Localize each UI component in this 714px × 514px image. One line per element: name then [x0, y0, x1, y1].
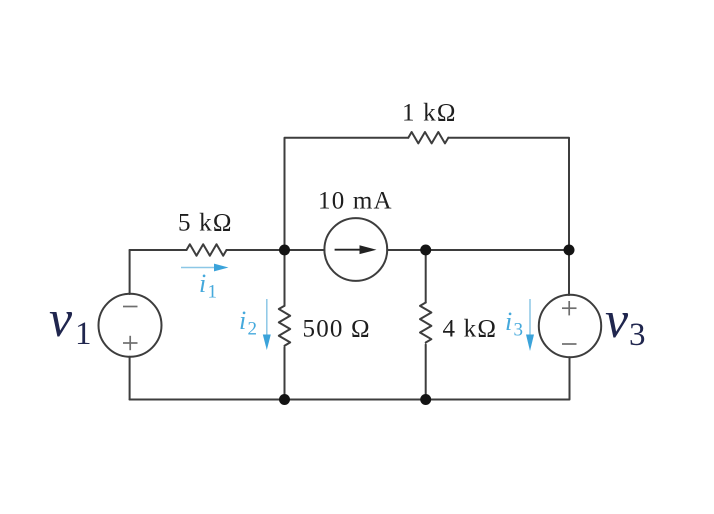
svg-text:1: 1 [208, 282, 218, 303]
svg-text:4 kΩ: 4 kΩ [443, 315, 498, 342]
svg-text:10 mA: 10 mA [318, 187, 393, 214]
svg-text:i: i [199, 269, 206, 298]
svg-text:i: i [505, 307, 512, 336]
svg-text:v: v [49, 291, 73, 348]
svg-text:1: 1 [75, 316, 92, 352]
svg-text:5 kΩ: 5 kΩ [178, 210, 233, 237]
svg-text:v: v [605, 292, 629, 349]
svg-text:i: i [239, 306, 246, 335]
svg-text:500 Ω: 500 Ω [303, 315, 371, 342]
svg-text:1 kΩ: 1 kΩ [402, 100, 457, 127]
svg-text:3: 3 [514, 320, 524, 341]
svg-text:3: 3 [629, 317, 646, 353]
svg-text:2: 2 [248, 319, 258, 340]
